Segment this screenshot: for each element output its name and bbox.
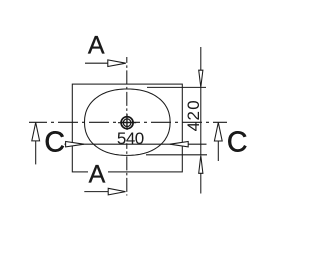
dimension line 420 [200,87,202,154]
arrow 420 bottom [199,156,203,174]
label A top halo [87,35,107,55]
section arrow A bottom head [108,188,125,195]
svg-text:540: 540 [117,129,144,148]
dimension stem 420 top [200,47,202,71]
section arrow A bottom stem [84,191,108,193]
section arrow A top head [108,60,126,67]
label C right halo [227,131,248,154]
drain inner circle [123,119,131,127]
horizontal centerline [29,121,227,123]
section arrow C right head [214,123,222,142]
arrow 540 left [66,142,84,147]
extension line 420 bottom [146,154,207,156]
arrow 540 right [170,142,188,147]
svg-text:A: A [89,161,106,189]
section arrow A top stem [85,62,108,64]
basin rim oval [85,89,171,155]
extension line 420 top [147,86,206,88]
drain crosshair [118,114,136,132]
section arrow C left stem [35,141,37,165]
svg-text:A: A [88,32,105,60]
washbasin outline rectangle [72,84,182,172]
drain outer circle [121,117,133,129]
svg-text:C: C [227,127,248,159]
section arrow C left head [32,123,40,141]
label C left halo [45,131,65,154]
dimension line 540 [64,143,206,145]
section arrow C right stem [217,141,219,161]
arrow 420 top [199,70,203,87]
label A bottom halo [88,164,108,184]
dimension stem 420 bottom [200,173,202,193]
svg-text:420: 420 [184,99,203,132]
vertical centerline [126,57,128,196]
svg-text:C: C [44,127,65,159]
label 540 halo [116,130,145,143]
